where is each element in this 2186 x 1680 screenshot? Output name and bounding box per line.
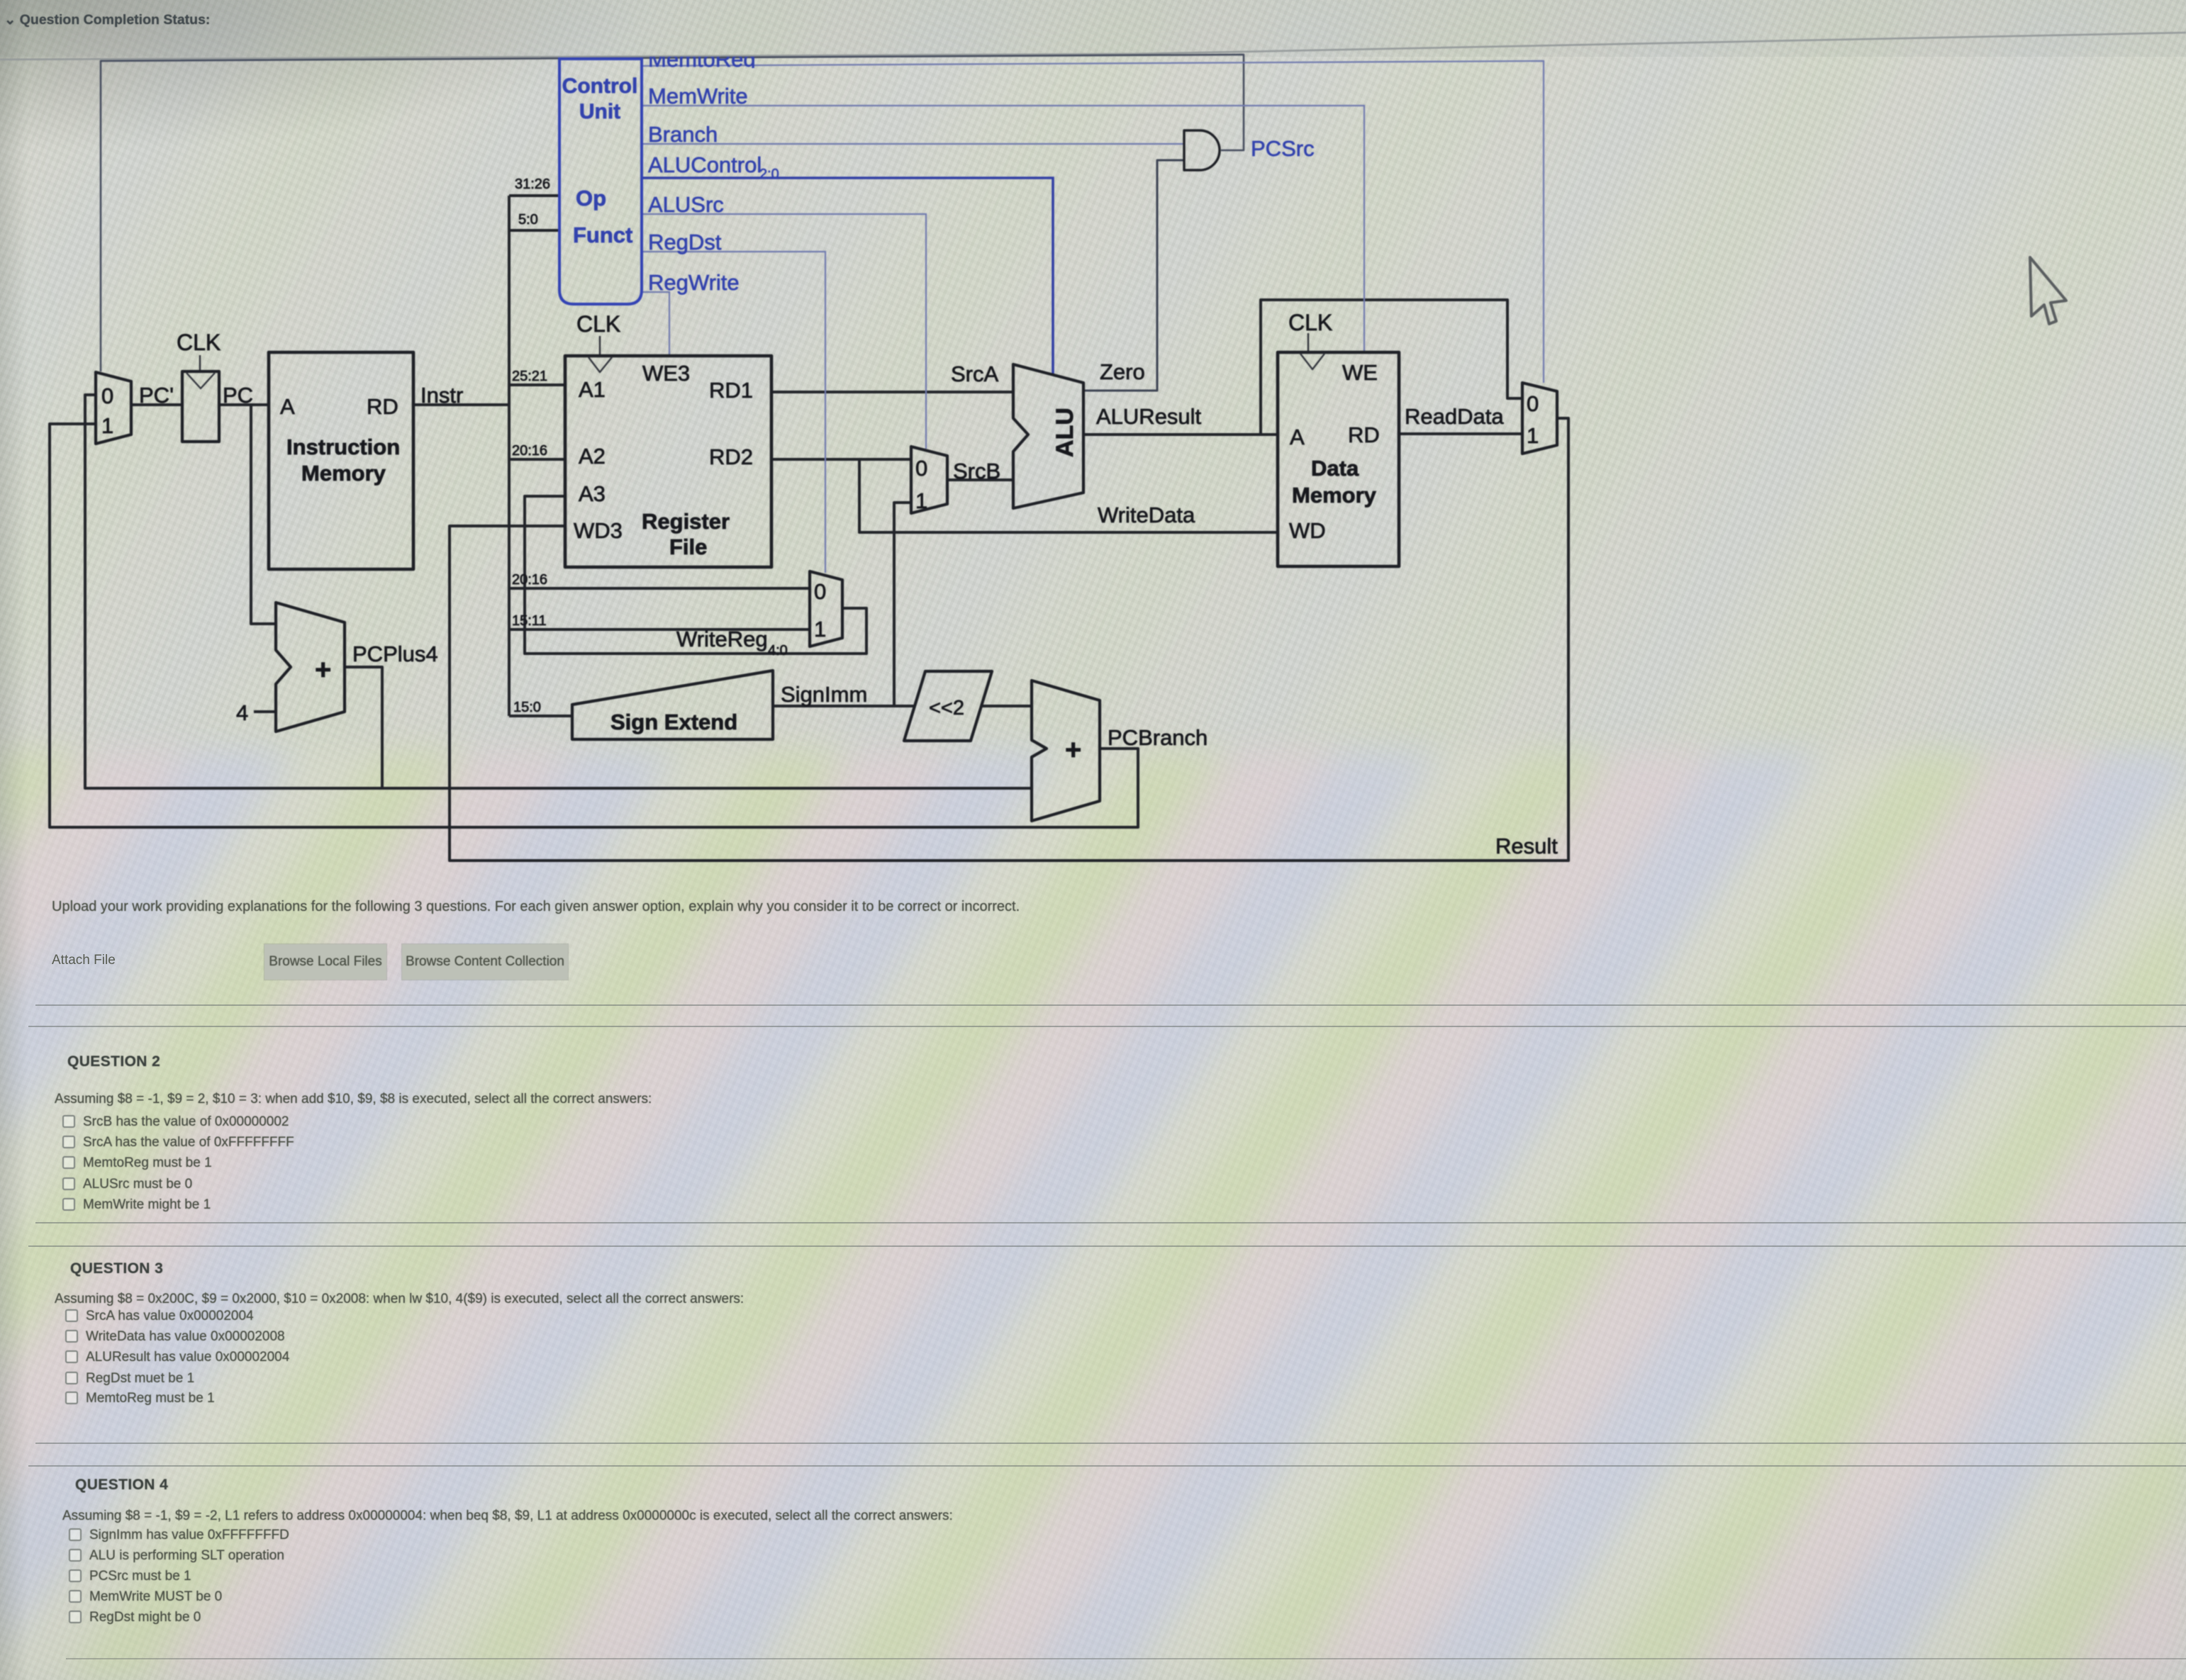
svg-text:Op: Op bbox=[576, 186, 606, 211]
svg-text:4: 4 bbox=[236, 700, 248, 725]
svg-text:25:21: 25:21 bbox=[512, 369, 547, 384]
mux ALUSrc bbox=[911, 447, 947, 513]
wire A1 stub 25:21 bbox=[509, 383, 565, 386]
wire ReadData to mux input 1 bbox=[1399, 432, 1522, 435]
svg-text:Sign Extend: Sign Extend bbox=[610, 710, 737, 734]
wire A2 stub 20:16 bbox=[509, 458, 565, 461]
wire 15:11 to RegDst mux input 1 bbox=[509, 628, 810, 631]
wire shifter output to PCBranch adder bbox=[981, 705, 1032, 707]
svg-text:WriteReg: WriteReg bbox=[676, 627, 768, 651]
svg-text:WD: WD bbox=[1289, 518, 1326, 543]
wire PCBranch to PC mux input 1 bbox=[50, 424, 1138, 827]
wire WriteData from RD2 to data memory WD bbox=[859, 459, 1278, 532]
svg-text:MemWrite: MemWrite bbox=[648, 84, 748, 108]
mux RegDst bbox=[810, 571, 842, 646]
svg-text:ALUSrc: ALUSrc bbox=[648, 192, 724, 217]
wire RegDst control bbox=[642, 252, 825, 573]
svg-text:SrcA: SrcA bbox=[951, 362, 999, 386]
wire MemtoReg control bbox=[642, 61, 1544, 383]
wire Zero to AND gate bbox=[1083, 160, 1184, 391]
svg-text:PC': PC' bbox=[139, 383, 174, 408]
svg-text:Control: Control bbox=[562, 74, 638, 98]
svg-text:20:16: 20:16 bbox=[512, 572, 547, 588]
svg-text:PCSrc: PCSrc bbox=[1251, 136, 1315, 161]
svg-text:RD: RD bbox=[367, 394, 398, 419]
svg-text:15:0: 15:0 bbox=[513, 700, 541, 715]
wire PCSrc from AND gate to PC mux select bbox=[101, 55, 1244, 371]
question 2 bbox=[67, 1053, 160, 1070]
svg-text:Instruction: Instruction bbox=[286, 435, 400, 459]
svg-text:RD: RD bbox=[1348, 422, 1380, 447]
svg-text:A1: A1 bbox=[579, 377, 606, 402]
svg-text:A: A bbox=[280, 394, 295, 419]
svg-text:MemtoReg: MemtoReg bbox=[648, 47, 756, 72]
svg-text:File: File bbox=[669, 534, 707, 559]
svg-text:1: 1 bbox=[915, 488, 927, 513]
upload section bbox=[52, 899, 1020, 915]
svg-text:1: 1 bbox=[101, 413, 113, 438]
label MemtoReg clipped at top bbox=[648, 47, 756, 72]
svg-text:WE3: WE3 bbox=[642, 361, 690, 386]
svg-text:RD1: RD1 bbox=[709, 378, 753, 403]
wire 20:16 to RegDst mux input 0 bbox=[509, 587, 810, 590]
svg-text:20:16: 20:16 bbox=[512, 443, 547, 459]
sign extend box bbox=[572, 671, 773, 739]
mux PC source select bbox=[96, 372, 131, 444]
wire CLK tick data memory bbox=[1307, 333, 1309, 352]
wire CLK tick register file bbox=[599, 336, 601, 355]
svg-text:ALU: ALU bbox=[1052, 408, 1078, 457]
wire Branch control bbox=[642, 143, 1184, 145]
svg-text:Branch: Branch bbox=[648, 122, 718, 147]
svg-text:WD3: WD3 bbox=[574, 518, 623, 543]
svg-text:PCPlus4: PCPlus4 bbox=[352, 642, 438, 666]
svg-text:ALUControl: ALUControl bbox=[648, 152, 762, 177]
wire SignImm from sign extend bbox=[773, 705, 915, 707]
svg-text:WriteData: WriteData bbox=[1098, 503, 1195, 527]
svg-text:2:0: 2:0 bbox=[759, 167, 779, 182]
register PC bbox=[182, 371, 219, 442]
svg-text:4:0: 4:0 bbox=[768, 643, 788, 659]
wire ALUControl bus bbox=[642, 178, 1053, 374]
wire ALUResult to data memory A bbox=[1083, 433, 1278, 436]
wire PCPlus4 to PCBranch adder lower input bbox=[382, 787, 1032, 790]
wire Instr vertical bus bbox=[508, 196, 511, 716]
svg-text:+: + bbox=[1065, 734, 1081, 766]
clock wedge data memory bbox=[1300, 354, 1325, 369]
svg-text:Unit: Unit bbox=[579, 100, 620, 123]
svg-text:+: + bbox=[315, 654, 331, 685]
instruction memory box bbox=[269, 352, 413, 569]
svg-text:0: 0 bbox=[1527, 391, 1539, 416]
wire PCPlus4 output bbox=[345, 667, 382, 788]
wire constant 4 to adder bbox=[254, 710, 276, 713]
wire SrcB mux output to ALU bbox=[947, 478, 1013, 481]
svg-text:RegWrite: RegWrite bbox=[648, 270, 740, 295]
wire PCPlus4 to PC mux input 0 bbox=[85, 395, 382, 788]
svg-text:Funct: Funct bbox=[573, 223, 632, 247]
wire 15:0 stub to sign extend bbox=[509, 715, 572, 717]
svg-text:A2: A2 bbox=[579, 444, 606, 469]
shifter left 2 bbox=[904, 671, 992, 741]
data memory box bbox=[1278, 352, 1399, 566]
svg-text:Memory: Memory bbox=[301, 461, 386, 486]
wire Instr bus bbox=[413, 403, 509, 406]
svg-text:RD2: RD2 bbox=[709, 444, 753, 469]
svg-text:0: 0 bbox=[814, 579, 826, 604]
adder PCPlus4 bbox=[276, 603, 345, 732]
svg-text:WE: WE bbox=[1342, 360, 1378, 385]
svg-text:ALUResult: ALUResult bbox=[1096, 404, 1202, 429]
adder PCBranch bbox=[1032, 681, 1100, 821]
svg-text:5:0: 5:0 bbox=[518, 212, 538, 228]
question 3 bbox=[70, 1260, 163, 1277]
svg-text:RegDst: RegDst bbox=[648, 230, 722, 254]
svg-text:A: A bbox=[1290, 425, 1305, 449]
svg-text:<<2: <<2 bbox=[929, 697, 964, 719]
svg-text:15:11: 15:11 bbox=[512, 613, 547, 629]
clock wedge register file bbox=[589, 357, 612, 372]
wire MemWrite control bbox=[642, 106, 1364, 352]
control unit box bbox=[559, 59, 642, 304]
svg-text:1: 1 bbox=[814, 617, 826, 642]
svg-text:CLK: CLK bbox=[576, 311, 620, 337]
wire RD2 to SrcB mux input 0 bbox=[771, 458, 911, 461]
svg-text:SignImm: SignImm bbox=[781, 682, 867, 707]
svg-text:PC: PC bbox=[223, 383, 253, 408]
wire ALUResult bypass to ReadData mux input 0 bbox=[1261, 300, 1522, 435]
svg-text:CLK: CLK bbox=[177, 330, 221, 355]
svg-text:SrcB: SrcB bbox=[953, 459, 1000, 483]
alu ALU bbox=[1013, 364, 1083, 508]
register file box bbox=[565, 356, 771, 567]
wire Result back to register file WD3 bbox=[450, 418, 1568, 861]
svg-text:Zero: Zero bbox=[1100, 359, 1145, 384]
svg-text:0: 0 bbox=[101, 383, 113, 408]
wire RD1 SrcA to ALU bbox=[771, 391, 1013, 393]
svg-text:Data: Data bbox=[1311, 456, 1359, 481]
mouse cursor bbox=[2030, 257, 2066, 324]
svg-text:PCBranch: PCBranch bbox=[1108, 725, 1208, 750]
svg-text:A3: A3 bbox=[579, 481, 606, 506]
wire RegWrite control bbox=[642, 292, 669, 356]
svg-text:CLK: CLK bbox=[1288, 310, 1332, 335]
wire WriteReg from RegDst mux to A3 bbox=[525, 496, 866, 654]
wire SignImm up to SrcB mux input 1 bbox=[894, 503, 911, 706]
wire Op stub 31:26 bbox=[509, 194, 559, 197]
page separator line bbox=[0, 33, 2186, 60]
svg-text:31:26: 31:26 bbox=[515, 177, 550, 192]
svg-text:Memory: Memory bbox=[1292, 483, 1377, 508]
question 4 bbox=[75, 1477, 168, 1494]
wire PC down to PCPlus4 adder bbox=[251, 405, 276, 624]
wire PC to instruction memory bbox=[219, 403, 269, 406]
mux MemtoReg bbox=[1522, 383, 1557, 454]
svg-text:Instr: Instr bbox=[420, 383, 463, 408]
wire Funct stub 5:0 bbox=[509, 229, 559, 232]
wire ALUSrc control bbox=[642, 214, 926, 449]
gate AND PCSrc bbox=[1184, 130, 1220, 170]
svg-text:0: 0 bbox=[915, 456, 927, 481]
svg-text:Register: Register bbox=[642, 509, 730, 534]
wire PC-prime from mux to PC register bbox=[131, 403, 182, 406]
svg-text:ReadData: ReadData bbox=[1405, 404, 1504, 429]
wire CLK tick PC register bbox=[199, 355, 201, 370]
svg-text:1: 1 bbox=[1527, 423, 1539, 448]
svg-text:Result: Result bbox=[1495, 834, 1558, 858]
clock wedge PC register bbox=[186, 373, 215, 388]
header bbox=[0, 0, 2186, 57]
